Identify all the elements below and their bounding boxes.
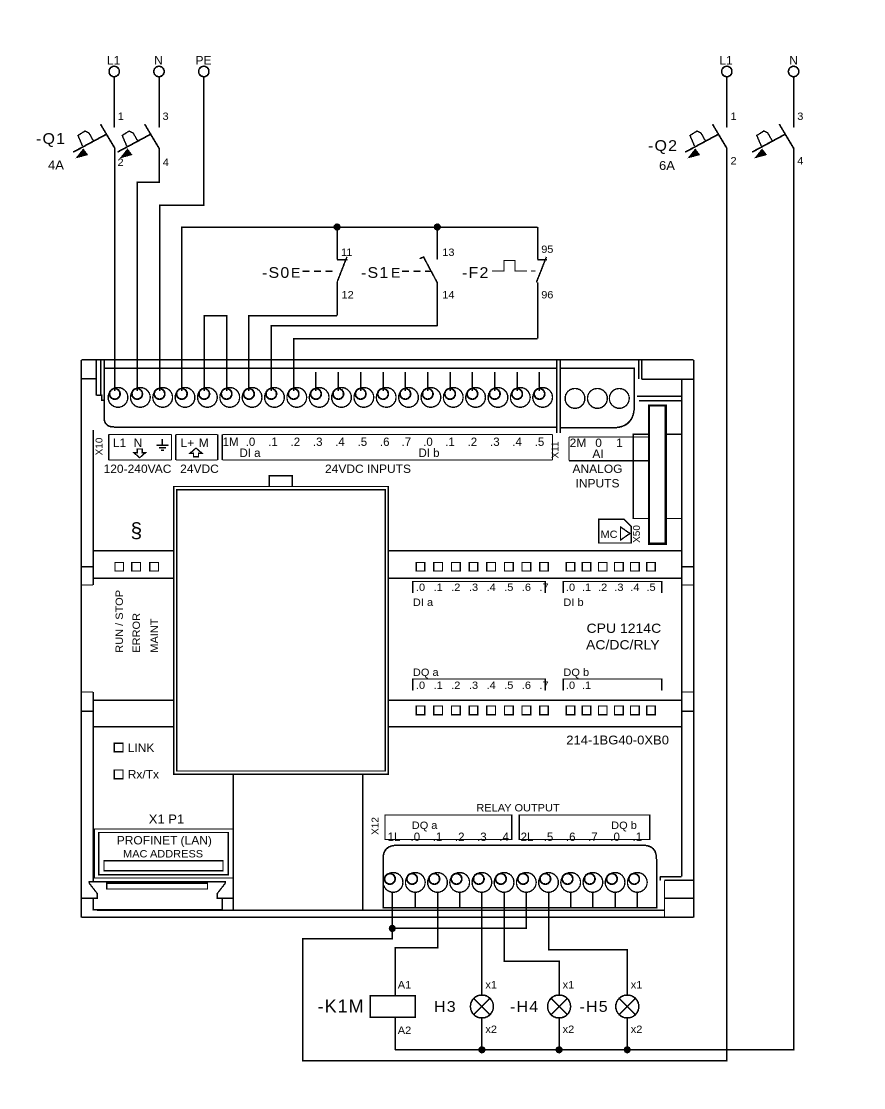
svg-text:.5: .5: [535, 437, 545, 449]
svg-text:DQ a: DQ a: [413, 667, 440, 679]
svg-text:.1: .1: [445, 437, 455, 449]
svg-text:DQ b: DQ b: [563, 667, 589, 679]
svg-text:.1: .1: [633, 832, 643, 844]
svg-text:.0: .0: [610, 832, 620, 844]
svg-text:AI: AI: [592, 447, 603, 461]
lower wiring cover: [233, 774, 363, 910]
terminal L1: [107, 54, 121, 77]
svg-text:.6: .6: [522, 680, 531, 692]
svg-text:L1: L1: [113, 436, 127, 450]
svg-text:4: 4: [797, 156, 803, 168]
svg-text:E: E: [291, 265, 300, 281]
svg-text:.1: .1: [268, 437, 278, 449]
down arrow (N): [134, 449, 146, 458]
junction node H4: [556, 1046, 563, 1053]
svg-text:1: 1: [118, 111, 124, 123]
svg-text:x2: x2: [631, 1024, 643, 1036]
svg-text:.0: .0: [566, 582, 575, 594]
terminal N: [154, 54, 164, 77]
label row box inputs: [222, 435, 552, 461]
wire L1 to Q2 pin 1: [726, 77, 728, 128]
svg-text:2: 2: [731, 156, 737, 168]
svg-text:DI a: DI a: [239, 448, 261, 460]
svg-text:.7: .7: [588, 832, 598, 844]
wire L1 to Q1 pin 1: [113, 77, 115, 128]
DQ b relay label box: [519, 815, 650, 840]
svg-text:.2: .2: [598, 582, 607, 594]
right DIN clip tabs: [682, 567, 694, 712]
svg-text:N: N: [789, 54, 798, 68]
svg-text:ERROR: ERROR: [131, 613, 143, 653]
svg-text:4A: 4A: [48, 158, 64, 173]
DQ b bracket: [563, 679, 662, 691]
svg-text:L1: L1: [719, 54, 733, 68]
svg-text:95: 95: [541, 244, 553, 256]
svg-text:PROFINET (LAN): PROFINET (LAN): [117, 834, 212, 848]
svg-text:X1 P1: X1 P1: [149, 812, 184, 827]
svg-text:.5: .5: [647, 582, 656, 594]
svg-text:DI a: DI a: [413, 597, 434, 609]
X12 relay terminal circles: [383, 873, 647, 893]
unconnected input terminal stubs .3-.7 and DI b: [316, 372, 540, 391]
svg-text:.1: .1: [434, 680, 443, 692]
svg-text:AC/DC/RLY: AC/DC/RLY: [586, 637, 660, 653]
svg-text:X10: X10: [95, 437, 106, 455]
wire Q1 pin 4 to terminal N: [137, 148, 159, 391]
ANALOG INPUTS label: [572, 462, 622, 491]
DQ a LED row: [416, 706, 548, 715]
svg-text:X11: X11: [550, 441, 561, 458]
label row box L1 N PE: [109, 435, 172, 461]
svg-text:MAC ADDRESS: MAC ADDRESS: [123, 849, 203, 861]
svg-text:ANALOG: ANALOG: [572, 462, 622, 476]
junction node at S1: [434, 223, 441, 230]
svg-text:96: 96: [541, 290, 553, 302]
lamp H5: [616, 995, 639, 1018]
svg-text:.6: .6: [522, 582, 531, 594]
svg-text:1: 1: [731, 111, 737, 123]
F2 thermal release symbol: [492, 261, 536, 272]
svg-text:.2: .2: [455, 832, 465, 844]
svg-text:L1: L1: [107, 54, 121, 68]
svg-text:.5: .5: [504, 582, 513, 594]
wire Q1 pin 2 to terminal L1: [114, 148, 116, 391]
junction node H3: [478, 1046, 485, 1053]
wire Q2 pin 4 down to lamp return rail: [395, 148, 794, 1050]
DI a LED row: [416, 562, 548, 571]
svg-text:-Q1: -Q1: [36, 131, 66, 148]
junction node 1L/2L: [389, 925, 396, 932]
svg-text:.7: .7: [539, 680, 548, 692]
DQ b LED row: [566, 706, 655, 715]
svg-text:.1: .1: [582, 582, 591, 594]
svg-text:.2: .2: [468, 437, 478, 449]
svg-text:-Q2: -Q2: [648, 138, 678, 155]
DI b LED labels: [566, 582, 656, 594]
svg-text:§: §: [131, 520, 143, 543]
svg-text:-F2: -F2: [462, 265, 490, 282]
wire F2 pin 96 to DI a.2: [294, 339, 538, 392]
svg-text:DI b: DI b: [418, 448, 439, 460]
DI a LED bracket: [413, 582, 545, 594]
top-right corner notch shelf: [639, 360, 694, 379]
PLC inner bottom edge: [97, 909, 665, 911]
middle DQ band lines: [93, 700, 682, 726]
X11 analog terminal circles 2M 0 1: [565, 389, 629, 409]
svg-text:214-1BG40-0XB0: 214-1BG40-0XB0: [566, 733, 669, 748]
svg-text:.6: .6: [380, 437, 390, 449]
svg-text:MC: MC: [601, 529, 618, 541]
PLC inner right edge: [681, 379, 683, 877]
PROFINET port box: [94, 829, 233, 878]
svg-text:RUN / STOP: RUN / STOP: [114, 590, 126, 653]
svg-text:.0: .0: [416, 680, 425, 692]
wire N to Q2 pin 3: [793, 77, 795, 128]
wire L+ rail: [182, 227, 538, 391]
Rx/Tx LED: [114, 768, 159, 782]
DI b LED row: [566, 562, 655, 571]
analog input terminal block: [560, 368, 634, 428]
relay terminal labels 2L .5-.7 .0 .1: [521, 832, 642, 844]
svg-text:x1: x1: [563, 980, 575, 992]
breaker Q1 pole 2: [118, 124, 160, 158]
svg-text:4: 4: [163, 157, 169, 169]
LED status band lines: [93, 551, 682, 578]
wire M to 1M link: [204, 316, 226, 392]
svg-text:PE: PE: [195, 54, 211, 68]
lamp H3: [470, 995, 493, 1018]
svg-text:.0: .0: [416, 582, 425, 594]
RUN/STOP ERROR MAINT status LEDs: [115, 562, 159, 571]
wire Q2 pin 2 down to relay common rail: [303, 148, 727, 1061]
relay terminal labels 1L .0-.4: [388, 832, 510, 844]
X11 separator double line: [557, 360, 560, 433]
MC slot outer box: [633, 434, 681, 518]
wire 1L down: [391, 892, 393, 928]
svg-text:DQ b: DQ b: [611, 820, 637, 832]
svg-text:.6: .6: [566, 832, 576, 844]
svg-text:.3: .3: [469, 680, 478, 692]
svg-text:1M: 1M: [223, 437, 239, 449]
svg-text:24VDC: 24VDC: [180, 462, 219, 476]
svg-text:X50: X50: [632, 525, 643, 543]
svg-text:3: 3: [163, 111, 169, 123]
PLC outer frame: [81, 360, 693, 917]
svg-text:.4: .4: [512, 437, 522, 449]
svg-text:.7: .7: [539, 582, 548, 594]
svg-text:.1: .1: [434, 582, 443, 594]
svg-text:6A: 6A: [659, 158, 675, 173]
DQ a relay label box: [385, 815, 512, 840]
wire 2L to 1L link: [392, 892, 526, 928]
svg-text:.7: .7: [402, 437, 412, 449]
S1 actuator E with dashed link: [391, 265, 431, 281]
ground symbol (PE terminal): [156, 439, 168, 450]
svg-text:LINK: LINK: [128, 741, 155, 755]
breaker Q1 pole 1: [73, 124, 115, 158]
svg-text:-S1: -S1: [361, 265, 390, 282]
svg-text:13: 13: [442, 247, 454, 259]
svg-text:.1: .1: [433, 832, 443, 844]
svg-text:2M: 2M: [570, 436, 587, 450]
svg-text:L+: L+: [181, 436, 195, 450]
svg-text:1L: 1L: [388, 832, 401, 844]
svg-text:N: N: [134, 436, 143, 450]
svg-text:MAINT: MAINT: [149, 618, 161, 653]
svg-text:.5: .5: [504, 680, 513, 692]
terminal PE: [195, 54, 211, 77]
wire H5 x2 to N rail: [626, 1018, 628, 1050]
LINK LED: [114, 741, 154, 755]
left DIN clip tabs: [81, 567, 97, 899]
wire H4 x2 to N rail: [558, 1018, 560, 1050]
DQ a labels: [416, 680, 549, 692]
MC icon box: [599, 519, 631, 543]
svg-text:x2: x2: [485, 1024, 497, 1036]
svg-text:-K1M: -K1M: [318, 997, 365, 1017]
switch S0 (NC emergency stop): [337, 227, 347, 316]
svg-text:.2: .2: [291, 437, 301, 449]
svg-text:RELAY OUTPUT: RELAY OUTPUT: [476, 803, 560, 815]
RJ45 connector: [89, 882, 233, 910]
wire N to Q1 pin 3: [158, 77, 160, 128]
X12 terminal block body: [383, 845, 656, 908]
wire S1 pin 14 to DI a.1: [271, 326, 437, 391]
svg-text:x2: x2: [563, 1024, 575, 1036]
svg-text:14: 14: [442, 290, 454, 302]
svg-text:.3: .3: [490, 437, 500, 449]
analog terminal labels 2M 0 1: [570, 436, 623, 450]
svg-text:.5: .5: [544, 832, 554, 844]
DQ a bracket: [413, 679, 545, 691]
label row box AI: [569, 437, 651, 461]
svg-text:3: 3: [797, 111, 803, 123]
svg-text:.3: .3: [477, 832, 487, 844]
svg-text:120-240VAC: 120-240VAC: [104, 462, 172, 476]
junction node H5: [624, 1046, 631, 1053]
DQ b labels: [566, 680, 591, 692]
svg-text:A2: A2: [398, 1025, 411, 1037]
svg-text:CPU 1214C: CPU 1214C: [587, 620, 662, 636]
svg-text:.2: .2: [451, 582, 460, 594]
svg-text:H3: H3: [434, 999, 457, 1016]
svg-text:12: 12: [342, 290, 354, 302]
cover top notch: [269, 476, 292, 487]
relay coil K1M: [370, 996, 415, 1018]
svg-text:-H5: -H5: [580, 999, 609, 1016]
svg-text:M: M: [199, 436, 209, 450]
svg-text:.0: .0: [411, 832, 421, 844]
MC slot roof lines: [637, 396, 682, 434]
svg-text:-S0: -S0: [262, 265, 291, 282]
central access cover: [174, 487, 389, 775]
bottom-right DIN clip: [660, 877, 693, 918]
PLC inner left edge: [92, 430, 94, 882]
svg-text:-H4: -H4: [510, 999, 539, 1016]
label row box L+ M: [176, 435, 218, 461]
svg-text:X12: X12: [371, 817, 382, 835]
terminal row labels L+ M: [181, 436, 209, 450]
unconnected relay terminal stubs: [415, 892, 637, 907]
lamp H4: [548, 995, 571, 1018]
svg-text:1: 1: [616, 436, 623, 450]
breaker Q2 pole 1: [685, 124, 727, 158]
X10 terminal circles 1-20: [108, 388, 552, 408]
svg-text:N: N: [154, 54, 163, 68]
svg-text:11: 11: [341, 247, 352, 259]
terminal L1 (right): [719, 54, 733, 77]
svg-text:x1: x1: [631, 980, 643, 992]
terminal row labels L1 N: [113, 436, 143, 450]
switch S1 (NO start): [420, 227, 438, 326]
svg-text:Rx/Tx: Rx/Tx: [128, 768, 159, 782]
up arrow (24VDC out): [190, 448, 202, 457]
svg-text:.1: .1: [582, 680, 591, 692]
DI b LED bracket: [563, 582, 662, 594]
input terminal labels 1M .0-.7 .0-.5: [223, 437, 545, 449]
wire DQ a.3 to lamp H3: [481, 892, 483, 995]
wire K1M A2 to N rail: [394, 1017, 396, 1050]
svg-text:DQ a: DQ a: [412, 820, 439, 832]
svg-text:.4: .4: [487, 680, 496, 692]
svg-text:24VDC INPUTS: 24VDC INPUTS: [325, 462, 411, 476]
svg-text:.0: .0: [566, 680, 575, 692]
DI a LED labels: [416, 582, 549, 594]
svg-text:.3: .3: [469, 582, 478, 594]
svg-text:.2: .2: [451, 680, 460, 692]
svg-text:.3: .3: [614, 582, 623, 594]
overload contact F2 (NC 95-96): [536, 227, 546, 339]
wire DQ a.5 to lamp H5: [549, 892, 628, 995]
wire DQ a.1 to K1M A1: [395, 892, 438, 995]
S0 actuator E with dashed link: [291, 265, 336, 281]
wire S0 pin 12 to DI a.0: [249, 316, 337, 392]
svg-text:DI b: DI b: [563, 597, 583, 609]
svg-text:.3: .3: [313, 437, 323, 449]
svg-text:E: E: [391, 265, 400, 281]
svg-text:.4: .4: [335, 437, 345, 449]
svg-text:.5: .5: [358, 437, 368, 449]
svg-text:x1: x1: [485, 980, 497, 992]
svg-text:.4: .4: [630, 582, 639, 594]
wire PE to ground terminal: [160, 77, 204, 391]
terminal N (right): [788, 54, 798, 77]
svg-text:INPUTS: INPUTS: [575, 477, 619, 491]
wire H3 x2 to N rail: [481, 1018, 483, 1050]
breaker Q2 pole 2: [752, 124, 794, 158]
svg-text:A1: A1: [398, 980, 411, 992]
terminal block X10/X11 body: [104, 367, 557, 369]
svg-text:2L: 2L: [521, 832, 534, 844]
svg-text:.4: .4: [487, 582, 496, 594]
svg-text:2: 2: [118, 157, 124, 169]
wire DQ a.4 to lamp H4: [504, 892, 559, 995]
svg-text:.4: .4: [499, 832, 509, 844]
junction node at S0: [334, 223, 341, 230]
memory card slot X50: [649, 406, 666, 544]
